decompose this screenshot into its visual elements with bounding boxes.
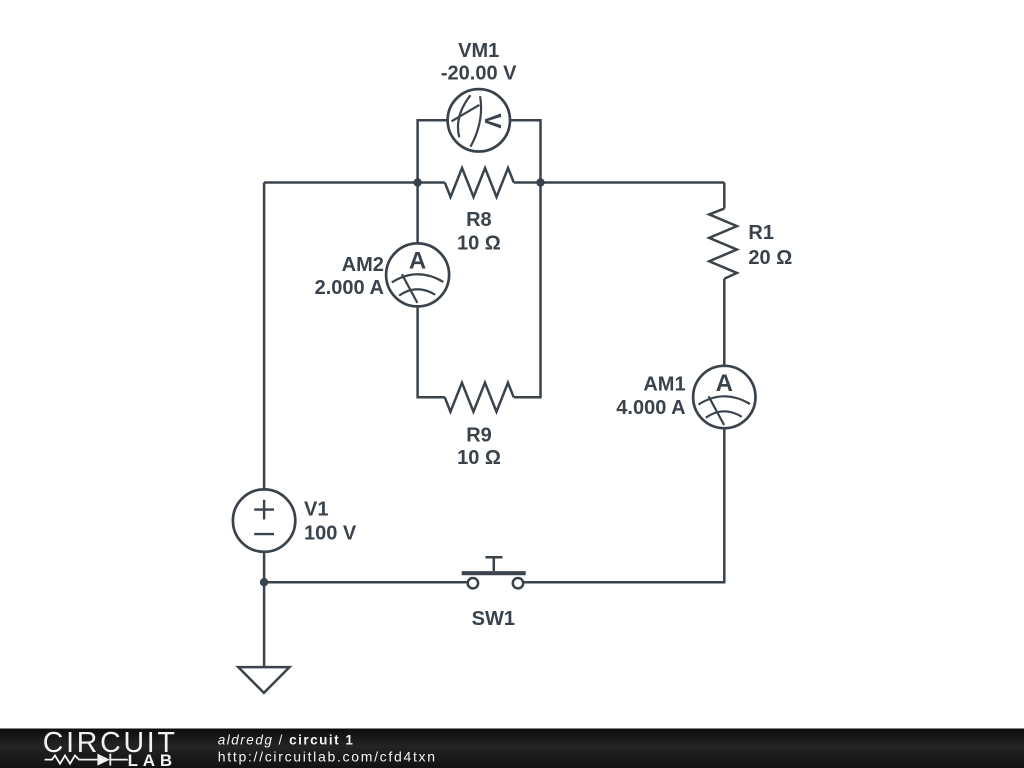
wire AM1 bottom lead down to bottom rail (523, 428, 724, 582)
svg-text:20 Ω: 20 Ω (748, 247, 792, 269)
ammeter AM1 needle (709, 396, 725, 425)
voltage source V1 plus sign (254, 500, 274, 520)
wire left rail down to V1 (263, 183, 266, 490)
svg-text:SW1: SW1 (472, 608, 515, 630)
wire AM2 bottom lead to R9 (418, 306, 445, 397)
svg-text:10 Ω: 10 Ω (457, 233, 501, 255)
svg-text:AM2: AM2 (342, 254, 384, 276)
voltage source V1 minus sign (254, 533, 274, 535)
svg-text:2.000 A: 2.000 A (315, 277, 384, 299)
svg-text:-20.00 V: -20.00 V (441, 63, 517, 85)
footer CircuitLab logo resistor-diode line (45, 754, 128, 766)
svg-text:LAB: LAB (128, 751, 177, 768)
switch SW1 top bar (486, 556, 503, 559)
svg-text:aldredg / circuit 1: aldredg / circuit 1 (218, 732, 355, 747)
wire R1 to AM1 (723, 279, 726, 366)
switch SW1 stem (493, 557, 496, 571)
svg-text:R9: R9 (466, 425, 492, 447)
wire V1 bottom to ground (263, 552, 266, 667)
svg-text:R8: R8 (466, 209, 492, 231)
wire top-right horizontal rail (514, 181, 725, 184)
wire R9 right lead up to top rail (514, 183, 541, 398)
ammeter AM1 circle (693, 366, 755, 428)
resistor R1 (709, 209, 737, 279)
node junction at R8 left / VM1 / AM2 (413, 178, 421, 186)
voltage source V1 circle (233, 489, 295, 551)
ground (238, 667, 289, 693)
ammeter AM2 circle (386, 243, 449, 306)
wire R1 top lead (723, 183, 726, 209)
svg-text:VM1: VM1 (458, 40, 499, 62)
svg-text:4.000 A: 4.000 A (616, 397, 685, 419)
resistor R8 (445, 168, 514, 197)
node junction at R8 right / VM1 / R9 (536, 178, 544, 186)
wire VM1 right stub (510, 120, 540, 182)
switch SW1 actuator bar (462, 571, 526, 575)
svg-text:http://circuitlab.com/cfd4txn: http://circuitlab.com/cfd4txn (218, 749, 437, 765)
svg-text:100 V: 100 V (304, 522, 357, 544)
svg-text:R1: R1 (748, 222, 774, 244)
ammeter AM1 meter face arcs (699, 396, 751, 404)
svg-text:V1: V1 (304, 499, 328, 521)
svg-text:V: V (480, 113, 506, 129)
svg-text:10 Ω: 10 Ω (457, 447, 501, 469)
ammeter AM2 needle (402, 274, 418, 303)
resistor R9 (445, 383, 514, 412)
voltmeter VM1 meter face arcs (458, 95, 471, 137)
wire bottom rail from SW1 to V1 junction (264, 581, 468, 584)
wire VM1 left stub (418, 120, 448, 182)
svg-text:AM1: AM1 (643, 373, 685, 395)
footer bar (0, 729, 1024, 768)
wire top-left horizontal rail (264, 181, 445, 184)
wire AM2 top lead (416, 183, 419, 244)
switch SW1 contacts (513, 578, 523, 588)
svg-text:A: A (409, 248, 426, 275)
svg-text:A: A (716, 370, 733, 397)
ammeter AM2 meter face arcs (392, 274, 444, 282)
voltmeter VM1 needle (452, 105, 480, 121)
voltmeter VM1 circle (448, 89, 510, 151)
node junction at V1 minus / SW1 / ground (260, 578, 268, 586)
